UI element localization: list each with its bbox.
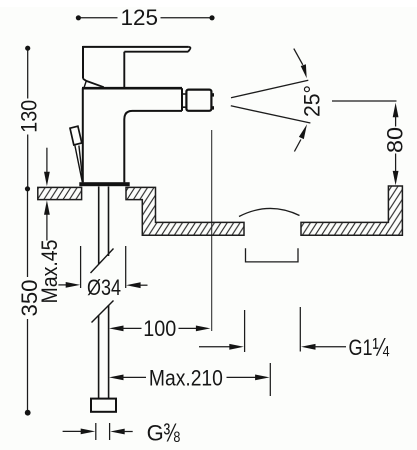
faucet handle lever underside: [124, 51, 188, 53]
aerator connector lines: [182, 94, 186, 107]
dimension Max.45: lower up arrow and line: [44, 200, 50, 215]
svg-text:25°: 25°: [300, 85, 325, 117]
drain right extension tick: [299, 307, 301, 352]
dimension 100: right arrow to centerline: [179, 327, 202, 329]
dimension 350: line: [27, 191, 29, 411]
dimension Max.45: upper extension line and down arrow: [46, 148, 48, 173]
pop-up rod: [75, 146, 83, 183]
faucet handle left edge: [82, 46, 84, 79]
svg-text:130: 130: [16, 100, 41, 133]
arrow to drain left tick: [199, 346, 233, 348]
faucet handle slant inner line: [84, 81, 86, 88]
svg-text:Max.45: Max.45: [37, 240, 62, 304]
supply pipe lower segment: [99, 305, 109, 399]
aerator block: [186, 90, 211, 111]
dimension 125: lines: [81, 17, 210, 19]
dimension Max.210: right arrow: [227, 376, 259, 378]
25 degree upper line: [231, 80, 308, 98]
25 degree lower line: [231, 106, 311, 123]
svg-text:Ø34: Ø34: [87, 275, 121, 300]
aerator outlet nubs: [211, 93, 214, 96]
25 degree lower leader arrow: [294, 140, 301, 152]
dimension 130: line: [27, 50, 29, 187]
faucet body top edge (thick): [82, 87, 182, 90]
dimension 80: up arrow: [393, 103, 399, 118]
dimension Max.210: left arrow at pipe: [109, 375, 124, 381]
dimension O34: left arrow: [58, 284, 68, 286]
faucet body left edge: [82, 88, 84, 182]
faucet handle lever top: [83, 46, 189, 48]
pop-up rod knob: [70, 126, 82, 145]
svg-text:⅜: ⅜: [163, 418, 180, 448]
basin interior arc over drain: [239, 208, 300, 216]
pipe break line upper: [91, 249, 114, 274]
pipe break line lower: [92, 301, 114, 323]
drain outline bracket: [246, 248, 299, 262]
supply pipe upper segment: [99, 187, 109, 265]
dimension O34: extension ticks: [81, 246, 126, 288]
svg-text:125: 125: [121, 5, 159, 30]
drain left extension tick: [244, 310, 246, 352]
G3/8 connection nut: [91, 399, 116, 412]
faucet handle lever tip: [188, 47, 190, 52]
spout outlet centerline: [211, 130, 213, 331]
svg-text:80: 80: [383, 127, 408, 153]
dimension 130: top dot: [25, 46, 30, 51]
25 degree upper leader arrow: [294, 49, 303, 65]
svg-text:G1: G1: [349, 335, 373, 360]
counter deck right with step and basin floor (hatched): [126, 187, 244, 235]
Max.210 extension tick: [269, 363, 271, 396]
svg-text:Max.210: Max.210: [149, 366, 223, 391]
dimension 125: left dot: [76, 15, 81, 20]
dimension G3/8: left arrow: [63, 430, 87, 432]
dimension 100: left arrow at pipe: [109, 326, 124, 332]
dimension G1 1/4: arrow: [301, 344, 316, 350]
dimension O34: right arrow: [126, 282, 141, 288]
dimension G3/8: right arrow: [110, 429, 125, 435]
svg-text:G: G: [147, 421, 164, 446]
faucet body right edge: [181, 88, 183, 111]
dimension 350: bottom dot: [25, 410, 31, 416]
dimension 80: down arrow: [395, 154, 397, 173]
svg-text:100: 100: [143, 316, 176, 341]
counter deck left slab (hatched): [38, 187, 82, 199]
faucet handle front slant: [83, 79, 104, 88]
basin floor right and wall (hatched): [301, 186, 402, 235]
dimension 125: right dot: [209, 15, 214, 20]
shared dot between 130 and 350: [25, 186, 30, 191]
faucet handle stem vertical: [123, 52, 125, 88]
faucet spout underside with inner rounded corner: [124, 111, 182, 182]
dimension 80: reference line: [332, 100, 397, 102]
svg-text:¼: ¼: [373, 332, 390, 362]
dimension G3/8: extension ticks: [96, 423, 110, 440]
faucet base flange: [79, 182, 129, 186]
